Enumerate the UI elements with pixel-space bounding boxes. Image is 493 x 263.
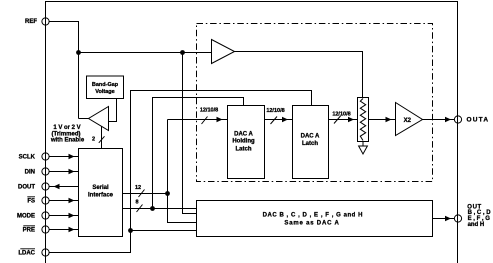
pin SCLK xyxy=(42,153,49,160)
node junction data bus xyxy=(165,191,170,196)
pin LDAC (active low) xyxy=(42,249,49,256)
svg-text:12/10/8: 12/10/8 xyxy=(266,108,284,114)
wire LDAC branch into DAC B-H block xyxy=(131,230,197,232)
svg-text:12/10/8: 12/10/8 xyxy=(332,112,350,118)
wire REF pin to internal reference node xyxy=(49,22,78,119)
op-amp reference buffer (top) xyxy=(212,40,235,64)
bus width 8 marker xyxy=(137,205,143,213)
wire X2 to OUTA pin xyxy=(423,119,455,121)
svg-text:DAC B , C , D , E , F , G and: DAC B , C , D , E , F , G and H xyxy=(263,213,363,219)
wire band-gap output to buffer input xyxy=(109,99,117,122)
svg-text:Latch: Latch xyxy=(235,147,251,153)
node junction LDAC xyxy=(128,228,133,233)
wire SCLK xyxy=(49,156,78,158)
svg-text:12: 12 xyxy=(135,185,141,191)
wire DAC B-H to OUT pins xyxy=(433,218,455,220)
svg-text:Same as DAC A: Same as DAC A xyxy=(284,221,339,227)
pin FS (active low) xyxy=(42,197,49,204)
resistor zigzag xyxy=(360,99,365,141)
serial interface block xyxy=(79,149,123,237)
svg-text:DOUT: DOUT xyxy=(18,184,35,190)
wire reference rail to buffer input xyxy=(79,52,212,54)
pin DIN xyxy=(42,168,49,175)
svg-text:PRE: PRE xyxy=(23,227,35,233)
svg-text:DAC A: DAC A xyxy=(301,134,320,140)
bus width marker xyxy=(202,117,208,125)
wire 12-bit data bus from serial interface xyxy=(123,193,168,195)
dash-dot DAC A channel box xyxy=(197,24,433,182)
op-amp band-gap buffer U2 (points left) xyxy=(89,107,109,131)
resistor string DAC element xyxy=(358,98,369,142)
node junction REF/bandgap xyxy=(76,50,81,55)
wire LDAC to latch controls and DAC B-H xyxy=(49,91,311,253)
svg-text:SCLK: SCLK xyxy=(19,154,36,160)
svg-text:Voltage: Voltage xyxy=(95,89,114,95)
bus width marker xyxy=(271,117,278,125)
svg-text:DAC A: DAC A xyxy=(234,132,253,138)
wire resistor string to X2 amp xyxy=(369,119,396,121)
wire 8-bit control bus from serial interface xyxy=(123,208,197,210)
wire bus holding latch to DAC A latch xyxy=(265,119,293,121)
svg-text:REF: REF xyxy=(25,19,37,25)
pin REF xyxy=(42,18,49,25)
svg-text:LDAC: LDAC xyxy=(18,250,35,256)
svg-text:Band-Gap: Band-Gap xyxy=(92,82,119,88)
wire DIN xyxy=(49,171,78,173)
wire DOUT (output) xyxy=(49,186,78,188)
pin MODE xyxy=(42,212,49,219)
svg-text:Interface: Interface xyxy=(88,193,114,199)
wire bus DAC A latch to resistor string xyxy=(329,119,358,121)
node junction reference tap to DAC B-H xyxy=(180,50,185,55)
bus width 12 marker xyxy=(139,190,145,198)
wire FS xyxy=(49,200,78,202)
wire reference tap down to DAC B-H block xyxy=(183,53,197,214)
wire buffer output to resistor string top xyxy=(235,52,363,98)
svg-text:with Enable: with Enable xyxy=(50,137,85,143)
wire control bus up to holding latch clock xyxy=(153,98,244,209)
pin DOUT xyxy=(42,183,49,190)
wire PRE xyxy=(49,229,78,231)
svg-text:1 V or 2 V: 1 V or 2 V xyxy=(53,125,80,131)
pin OUT B-H xyxy=(454,215,461,222)
svg-text:Holding: Holding xyxy=(232,139,255,145)
svg-text:FS: FS xyxy=(27,198,35,204)
svg-text:DIN: DIN xyxy=(25,169,35,175)
wire data bus up to DAC A holding latch and down to DAC B-H xyxy=(168,120,197,223)
pin PRE (active low) xyxy=(42,226,49,233)
svg-text:MODE: MODE xyxy=(17,213,35,219)
band-gap voltage block xyxy=(87,76,124,99)
DAC A latch block xyxy=(293,106,329,179)
op-amp X2 output amplifier xyxy=(396,103,423,136)
wire enable bus serial interface to buffer xyxy=(101,127,103,149)
bus width marker xyxy=(334,116,341,124)
svg-text:Latch: Latch xyxy=(302,141,318,147)
wire MODE xyxy=(49,215,78,217)
svg-text:and H: and H xyxy=(468,222,485,228)
svg-text:2: 2 xyxy=(92,137,95,143)
bus width 2 marker xyxy=(99,136,105,143)
svg-text:8: 8 xyxy=(135,200,138,206)
node junction control bus xyxy=(150,206,155,211)
svg-text:X2: X2 xyxy=(404,118,412,124)
svg-text:Serial: Serial xyxy=(92,185,109,191)
wire buffer output up to reference node xyxy=(79,118,89,120)
svg-text:12/10/8: 12/10/8 xyxy=(200,108,218,114)
ground arrow below resistor string xyxy=(362,142,364,147)
DAC B-H block xyxy=(197,201,433,237)
pin OUTA xyxy=(454,116,461,123)
svg-text:OUTA: OUTA xyxy=(467,116,490,123)
DAC A holding latch block xyxy=(228,106,265,179)
